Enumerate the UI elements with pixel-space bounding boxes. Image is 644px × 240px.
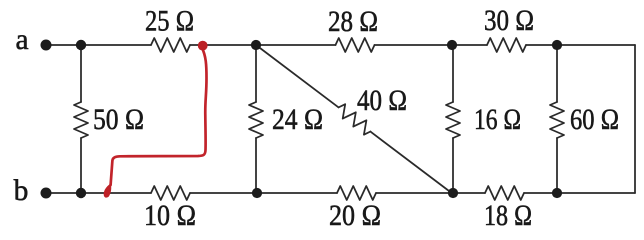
wire bottom rail b to 10ohm <box>46 192 151 194</box>
svg-text:40 Ω: 40 Ω <box>357 85 407 117</box>
svg-text:30 Ω: 30 Ω <box>484 5 534 37</box>
svg-text:b: b <box>14 175 29 207</box>
resistor R 10ohm zigzag <box>151 186 190 200</box>
wire bottom rail node f to 18ohm <box>453 192 485 194</box>
node dot a-top <box>76 40 86 50</box>
svg-text:18 Ω: 18 Ω <box>484 200 532 232</box>
terminal b dot <box>41 188 52 199</box>
wire bottom rail 20ohm to node f <box>376 192 453 194</box>
wire diagonal upper segment <box>256 45 339 107</box>
node dot f bottom-right <box>448 188 458 198</box>
node dot e bottom-mid <box>252 188 262 198</box>
resistor R 24ohm zigzag <box>249 102 263 138</box>
wire top rail 30ohm to right edge <box>526 44 635 46</box>
wire left column top <box>80 45 82 102</box>
svg-text:16 Ω: 16 Ω <box>474 104 521 136</box>
wire 24ohm column bottom <box>255 138 257 193</box>
resistor R 28ohm zigzag <box>336 38 375 52</box>
red annotation curve <box>111 48 207 185</box>
node dot d top-right <box>447 40 457 50</box>
svg-text:a: a <box>15 24 28 56</box>
svg-text:20 Ω: 20 Ω <box>329 200 381 232</box>
red node dot <box>198 41 208 51</box>
wire top rail 28ohm to node d <box>375 44 488 46</box>
resistor R 50ohm zigzag <box>74 102 88 138</box>
node dot b-bottom <box>76 188 86 198</box>
resistor R 40ohm diagonal zigzag <box>339 104 371 135</box>
resistor R 25ohm zigzag <box>151 38 190 52</box>
wire top rail 25ohm to node c <box>190 44 336 46</box>
wire top rail a to 25ohm <box>46 44 151 46</box>
wire bottom rail 10ohm to node e <box>190 192 257 194</box>
svg-text:28 Ω: 28 Ω <box>328 6 378 38</box>
wire left column bottom <box>80 138 82 193</box>
wire 24ohm column top <box>255 45 257 102</box>
resistor R 20ohm zigzag <box>337 186 376 200</box>
resistor R 30ohm zigzag <box>487 38 526 52</box>
svg-text:10 Ω: 10 Ω <box>144 200 196 232</box>
wire bottom rail node e to node f <box>257 192 337 194</box>
node dot bottom 60ohm <box>552 188 562 198</box>
resistor R 60ohm zigzag <box>550 102 564 138</box>
wire diagonal lower segment <box>370 132 453 194</box>
wire right edge vertical <box>634 45 636 193</box>
wire 60ohm column bottom <box>556 138 558 193</box>
resistor R 18ohm zigzag <box>485 186 524 200</box>
wire 16ohm column top <box>452 45 454 102</box>
wire bottom rail right segment <box>524 192 635 194</box>
svg-text:60 Ω: 60 Ω <box>570 104 619 136</box>
svg-text:25 Ω: 25 Ω <box>145 6 194 38</box>
svg-text:24 Ω: 24 Ω <box>272 104 323 136</box>
red annotation end blob <box>104 184 112 198</box>
svg-text:50 Ω: 50 Ω <box>93 104 144 136</box>
wire 60ohm column top <box>556 45 558 102</box>
node dot top 60ohm <box>552 40 562 50</box>
resistor R 16ohm zigzag <box>446 102 460 138</box>
terminal a dot <box>41 40 52 51</box>
wire 16ohm column bottom <box>452 138 454 193</box>
node dot c top-mid <box>251 40 261 50</box>
